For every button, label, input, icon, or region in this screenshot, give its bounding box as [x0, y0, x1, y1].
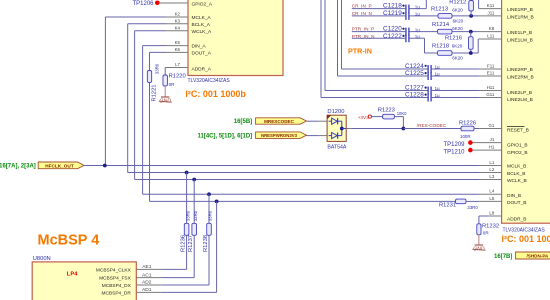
wire MCLK bus HFCLK_OUT to MCLK_B: [84, 165, 479, 167]
diode D1200-2 symbol: [332, 133, 338, 139]
pin stub L8: [488, 215, 502, 217]
junction reset net R1223: [402, 127, 406, 131]
svg-text:TLV320AIC34IZAS: TLV320AIC34IZAS: [188, 78, 231, 84]
wire R1226 to G1: [474, 128, 479, 130]
svg-text:TP1209: TP1209: [443, 142, 465, 148]
resistor R1221 33R0 series in DOUT_A: [147, 71, 151, 83]
capacitor C1224 1uF: [427, 65, 428, 73]
svg-text:AE1: AE1: [142, 264, 152, 270]
svg-text:R1216: R1216: [445, 35, 462, 41]
junction R1218 R1216: [469, 51, 473, 55]
svg-text:BAT54A: BAT54A: [327, 144, 346, 150]
resistor R1238 33R0: [207, 223, 212, 235]
svg-text:R1220: R1220: [169, 73, 186, 79]
svg-text:C1220: C1220: [383, 26, 402, 33]
wire D1200 common cathode: [338, 120, 342, 122]
wire R1213 to J11: [452, 15, 479, 17]
svg-text:PTR-IN: PTR-IN: [348, 47, 372, 56]
pin stub J11: [479, 15, 502, 17]
wire R1212 lead: [470, 11, 472, 16]
svg-text:6K20: 6K20: [453, 19, 464, 24]
svg-text:ADDR_B: ADDR_B: [507, 216, 526, 222]
capacitor C1228 1uF: [427, 94, 428, 102]
junction R1212 bottom: [469, 14, 473, 18]
svg-text:33R0: 33R0: [185, 210, 190, 221]
svg-text:K3: K3: [175, 18, 181, 23]
svg-text:TLV320AIC34IZAS: TLV320AIC34IZAS: [503, 228, 546, 234]
junction BCLK bus drop: [185, 171, 189, 175]
wire R1223 down to reset net: [394, 116, 403, 118]
svg-text:R1232: R1232: [482, 224, 499, 230]
svg-text:MCBSP4_FSX: MCBSP4_FSX: [99, 276, 132, 282]
pin stub L3: [479, 179, 502, 181]
pin stub L7 ADDR_A: [166, 67, 188, 69]
diode D1200-1 symbol: [332, 118, 338, 124]
wire reset net to junction: [353, 128, 404, 130]
svg-text:C1225: C1225: [405, 70, 424, 77]
capacitor C1219 1uF: [405, 12, 406, 20]
svg-text:11[4C], 5[1D], 6[1D]: 11[4C], 5[1D], 6[1D]: [198, 133, 253, 139]
wire DOUT_A horizontal from K6: [150, 51, 167, 53]
svg-text:K8: K8: [489, 26, 495, 31]
wire drop BCLK to R1236: [186, 173, 188, 224]
svg-text:WCLK_A: WCLK_A: [192, 29, 213, 35]
resistor R1223 10K0 pullup: [383, 114, 395, 119]
wire MCLK_A horizontal from K2: [105, 16, 166, 18]
svg-text:GPIO1_B: GPIO1_B: [507, 143, 528, 149]
wire DOUT bus left of R1231: [150, 200, 456, 202]
svg-text:McBSP 4: McBSP 4: [38, 233, 100, 249]
svg-text:LINE1RM_B: LINE1RM_B: [507, 14, 534, 20]
resistor R1237 33R0: [192, 223, 197, 235]
ground GND below R1220: [161, 96, 169, 98]
pin stub D1200 pin 1: [319, 120, 328, 122]
svg-text:H11: H11: [487, 85, 495, 90]
IC U800N McBSP4 body: [32, 262, 136, 300]
capacitor C1228 polarity dot: [425, 94, 427, 96]
svg-text:R1221: R1221: [151, 84, 157, 101]
svg-text:MCBSP4_DR: MCBSP4_DR: [101, 290, 131, 296]
svg-text:C1222: C1222: [383, 33, 402, 40]
svg-text:D1200: D1200: [327, 109, 344, 115]
wire R1220 to ground: [164, 86, 166, 97]
svg-text:16[7B]: 16[7B]: [494, 254, 512, 260]
svg-text:U800N: U800N: [33, 256, 51, 262]
wire ADDR_B to R1232: [479, 215, 488, 217]
svg-text:33R0: 33R0: [208, 210, 213, 221]
svg-text:L3: L3: [489, 174, 494, 179]
wire C1218 to top edge: [410, 8, 427, 10]
wire NRESPWRON3V3 to D1200: [307, 135, 319, 137]
pin stub AC1: [136, 277, 162, 279]
svg-text:NRESPWRON3V3: NRESPWRON3V3: [261, 133, 298, 138]
wire R1218 to L11: [452, 52, 478, 54]
wire R1236 to AE1: [186, 235, 188, 269]
wire BCLK bus: [128, 172, 479, 174]
svg-text:K2: K2: [175, 12, 181, 17]
wire reset net to R1226: [403, 128, 461, 130]
svg-text:J1: J1: [490, 137, 495, 142]
wire C1228 to G11: [432, 97, 479, 99]
svg-text:LINE1LM_B: LINE1LM_B: [507, 38, 533, 44]
svg-text:ADDR_A: ADDR_A: [192, 66, 212, 72]
svg-text:+3V3: +3V3: [358, 115, 369, 120]
wire WCLK bus: [135, 179, 479, 181]
junction D1200 cathode: [340, 127, 344, 131]
wire LINE2 net vertical 2: [337, 0, 339, 76]
wire R1216 leads: [470, 32, 472, 37]
svg-text:33R0: 33R0: [155, 63, 160, 74]
svg-text:L8: L8: [489, 210, 494, 215]
svg-text:6K20: 6K20: [452, 56, 463, 61]
wire C1219 to R1213: [410, 15, 439, 17]
svg-text:C1224: C1224: [405, 63, 424, 70]
svg-text:MRESCODEC: MRESCODEC: [264, 119, 295, 124]
svg-text:R1237: R1237: [188, 235, 194, 252]
svg-text:R1231: R1231: [439, 203, 456, 209]
svg-text:K6: K6: [175, 47, 181, 52]
svg-text:CR_IN_P: CR_IN_P: [352, 3, 372, 8]
resistor R1220 0R ADDR_A pulldown: [163, 75, 168, 86]
svg-text:LP4: LP4: [67, 271, 78, 277]
svg-text:K4: K4: [175, 25, 181, 30]
svg-text:H1: H1: [489, 145, 495, 150]
svg-text:LINE2RM_B: LINE2RM_B: [507, 74, 534, 80]
svg-text:R1218: R1218: [432, 44, 449, 50]
svg-text:MCBSP4_CLKX: MCBSP4_CLKX: [96, 267, 132, 273]
overline for RESET_B: [507, 125, 525, 127]
pin stub K6 DOUT_A: [166, 51, 188, 53]
svg-text:BCLK_B: BCLK_B: [507, 171, 525, 177]
svg-text:R1236: R1236: [180, 235, 186, 252]
svg-text:WCLK_B: WCLK_B: [507, 178, 527, 184]
svg-text:GPIO2_B: GPIO2_B: [507, 150, 528, 156]
wire drop WCLK to R1237: [193, 180, 195, 224]
pin stub K2 MCLK_A: [166, 16, 188, 18]
svg-text:AD1: AD1: [142, 287, 152, 293]
capacitor C1220 polarity dot: [402, 28, 404, 30]
svg-text:J11: J11: [488, 10, 495, 15]
junction DIN bus drop: [207, 192, 211, 196]
svg-text:G11: G11: [486, 92, 495, 97]
capacitor C1225 1uF: [427, 72, 428, 80]
svg-text:F11: F11: [487, 63, 495, 68]
svg-text:L7: L7: [175, 62, 180, 67]
svg-text:L2: L2: [489, 167, 494, 172]
svg-text:GPIO2_A: GPIO2_A: [192, 2, 213, 8]
svg-text:16[7A], 2[3A]: 16[7A], 2[3A]: [0, 163, 36, 169]
svg-text:0R: 0R: [483, 230, 490, 235]
wire C1220 to R1214: [410, 31, 438, 33]
wire CR_IN_P to C1218: [352, 8, 405, 10]
flag MRESCODEC: [256, 118, 307, 124]
wire WCLK_A horizontal from K4: [135, 30, 166, 32]
wire C1227 to H11: [432, 90, 479, 92]
pin stub K4 WCLK_A: [166, 30, 188, 32]
svg-text:/RES-CODEC: /RES-CODEC: [417, 123, 447, 128]
wire PTR_IN_P to C1220: [352, 31, 405, 33]
svg-text:R1238: R1238: [203, 235, 209, 252]
svg-text:6K20: 6K20: [452, 44, 463, 49]
wire BCLK_A horizontal from K3: [128, 23, 166, 25]
pin stub L2: [479, 172, 502, 174]
svg-text:DIN_A: DIN_A: [192, 44, 207, 50]
svg-text:C1218: C1218: [383, 3, 402, 10]
svg-text:R1223: R1223: [378, 108, 395, 114]
resistor R1232 0R ADDR_B pulldown: [477, 224, 481, 235]
IC U1200 TLV320AIC34 part B body: [502, 0, 550, 223]
ground GND below R1232: [475, 244, 483, 246]
resistor R1212 6K20 vertical: [469, 1, 474, 12]
svg-text:BCLK_A: BCLK_A: [192, 22, 211, 28]
IC U1200 TLV320AIC34 part A body: [188, 0, 283, 76]
wire C1222 jog down to R1218: [410, 37, 425, 39]
wire LINE2 net vertical 1: [341, 0, 343, 69]
wire +3V3 to R1223: [372, 116, 383, 118]
wire R1232 to ground: [478, 235, 480, 245]
capacitor C1218 polarity dot: [402, 5, 404, 7]
testpoint TP1210 red dot: [468, 148, 473, 153]
wire C1225 to E11: [432, 75, 479, 77]
pin stub AD1: [136, 291, 162, 293]
svg-text:G1: G1: [488, 123, 494, 128]
svg-text:AC1: AC1: [142, 272, 152, 278]
svg-text:MCLK_A: MCLK_A: [192, 15, 212, 21]
capacitor C1227 1uF: [427, 87, 428, 95]
wire drop DOUT to AD1: [216, 201, 218, 292]
wire drop DIN to R1238: [208, 194, 210, 223]
junction DOUT bus drop: [215, 200, 219, 204]
wire R1237 to AC1: [193, 235, 195, 277]
wire R1238 to AD2: [208, 235, 210, 285]
junction MCLK bus and MCLK_A: [103, 164, 107, 168]
svg-text:CR_IN_N: CR_IN_N: [352, 11, 372, 16]
svg-text:C1219: C1219: [383, 10, 402, 17]
wire R1231 to DOUT_B pin: [466, 200, 479, 202]
testpoint TP1209 red dot: [468, 140, 473, 145]
svg-text:LINE2LM_B: LINE2LM_B: [507, 97, 533, 103]
pin stub L4: [479, 193, 502, 195]
diode pack D1200 pin1 marker: [327, 115, 331, 119]
svg-text:E11: E11: [487, 70, 495, 75]
wire PTR_IN_N to C1222: [352, 37, 405, 39]
pin stub D1200 pin 2: [319, 135, 328, 137]
svg-text:33R0: 33R0: [193, 210, 198, 221]
pin stub K3 BCLK_A: [166, 23, 188, 25]
svg-text:K11: K11: [487, 3, 495, 8]
capacitor C1218 1uF: [405, 5, 406, 13]
svg-text:DOUT_A: DOUT_A: [192, 51, 212, 57]
resistor R1216 6K20 vertical: [469, 37, 474, 50]
svg-text:AD2: AD2: [142, 280, 152, 286]
wire MRESCODEC to D1200: [307, 120, 319, 122]
wire DIN bus: [143, 193, 479, 195]
resistor R1231 33R0 series DOUT_B: [456, 199, 467, 204]
pin stub K5 DIN_A: [166, 45, 188, 47]
wire ADDR_A to R1220: [164, 67, 167, 69]
pin stub AD2: [136, 284, 162, 286]
testpoint TP1206 red dot: [155, 1, 160, 6]
capacitor C1219 polarity dot: [402, 12, 404, 14]
flag NRESPWRON3V3: [256, 132, 307, 139]
pin stub E11: [479, 75, 502, 77]
wire K11 from top edge: [478, 0, 480, 9]
pin stub L1: [479, 165, 502, 167]
wire R1214 to K8: [452, 31, 479, 33]
wire LINE2 net vertical 3: [324, 0, 326, 91]
flag /SHDN-PAMP: [516, 252, 550, 259]
svg-text:6K20: 6K20: [452, 8, 463, 13]
flag HFCLK_OUT: [38, 162, 84, 169]
pin stub L5: [479, 200, 502, 202]
wire BCLK_A vertical drop: [127, 24, 129, 173]
pin stub K11: [479, 8, 502, 10]
wire DIN_A vertical drop: [142, 46, 144, 195]
svg-text:TP1206: TP1206: [132, 1, 154, 7]
wire DIN_A horizontal from K5: [143, 45, 166, 47]
svg-text:I²C: 001 1000b: I²C: 001 1000b: [185, 89, 246, 99]
svg-text:L11: L11: [487, 33, 495, 38]
resistor R1214 6K20: [438, 29, 453, 34]
wire TP1209 to J1: [473, 142, 502, 144]
pin stub AE1: [136, 268, 162, 270]
pin stub GPIO2_A: [160, 2, 189, 4]
svg-text:LINE1LP_B: LINE1LP_B: [507, 30, 532, 36]
svg-text:R1214: R1214: [432, 22, 450, 28]
capacitor C1220 1uF: [405, 28, 406, 36]
resistor R1213 6K20: [438, 14, 452, 19]
svg-text:DOUT_B: DOUT_B: [507, 200, 526, 206]
svg-text:MCBSP4_DX: MCBSP4_DX: [102, 283, 132, 289]
capacitor C1227 polarity dot: [425, 87, 427, 89]
svg-text:RESET_B: RESET_B: [507, 128, 529, 134]
svg-text:PTR_IN_P: PTR_IN_P: [352, 27, 374, 32]
svg-text:LINE2RP_B: LINE2RP_B: [507, 67, 533, 73]
wire DOUT_A vertical to R1221: [149, 52, 151, 70]
svg-text:HFCLK_OUT: HFCLK_OUT: [45, 163, 74, 168]
capacitor C1225 polarity dot: [425, 72, 427, 74]
svg-text:L5: L5: [489, 196, 494, 201]
svg-text:I²C: 001 1001b: I²C: 001 1001b: [502, 234, 550, 244]
svg-text:/SHDN-PA: /SHDN-PA: [527, 253, 550, 258]
pin stub H11: [479, 90, 502, 92]
svg-text:MCLK_B: MCLK_B: [507, 164, 526, 170]
wire TP1210 to H1: [473, 149, 502, 151]
svg-text:33R0: 33R0: [467, 205, 478, 210]
svg-text:16[5B]: 16[5B]: [234, 119, 252, 125]
supply +3V3 circle: [368, 115, 371, 118]
svg-text:L4: L4: [489, 189, 494, 194]
svg-text:L1: L1: [489, 160, 494, 165]
pin stub G1: [479, 128, 502, 130]
svg-text:C1227: C1227: [405, 85, 424, 92]
wire LINE2 net vertical 4: [320, 0, 322, 98]
wire MCLK_A vertical drop: [104, 17, 106, 166]
svg-text:0R: 0R: [169, 82, 176, 87]
svg-text:R1226: R1226: [459, 120, 476, 126]
svg-text:C1228: C1228: [405, 92, 424, 99]
pin stub F11: [479, 68, 502, 70]
svg-text:R1212: R1212: [449, 0, 466, 6]
svg-text:6K20: 6K20: [452, 26, 463, 31]
pin stub G11: [479, 97, 502, 99]
capacitor C1222 1uF: [405, 34, 406, 42]
svg-text:LINE1RP_B: LINE1RP_B: [507, 7, 533, 13]
svg-text:LINE2LP_B: LINE2LP_B: [507, 90, 532, 96]
pin stub L11: [478, 38, 501, 40]
wire WCLK_A vertical drop: [134, 31, 136, 180]
capacitor C1224 polarity dot: [425, 65, 427, 67]
svg-text:TP1210: TP1210: [443, 149, 465, 155]
resistor R1226 100R series reset: [461, 126, 474, 131]
junction WCLK bus drop: [192, 178, 196, 182]
junction R1216 top: [469, 30, 473, 34]
svg-text:DIN_B: DIN_B: [507, 193, 521, 199]
wire up to L11 stub: [477, 39, 479, 53]
resistor R1236 33R0: [184, 223, 189, 235]
wire CR_IN_N to C1219: [352, 15, 405, 17]
diode pack D1200 body: [327, 115, 346, 141]
wire DOUT_A vertical below R1221: [149, 83, 151, 202]
wire C1224 to F11: [432, 68, 479, 70]
svg-text:10K0: 10K0: [397, 111, 407, 116]
svg-text:R1213: R1213: [431, 7, 448, 13]
svg-text:100R: 100R: [460, 134, 471, 139]
resistor R1218 6K20: [438, 51, 453, 56]
pin stub D1200 pin 3: [346, 128, 352, 130]
svg-text:K5: K5: [175, 40, 181, 45]
capacitor C1222 polarity dot: [402, 35, 404, 37]
pin stub K8: [479, 31, 502, 33]
